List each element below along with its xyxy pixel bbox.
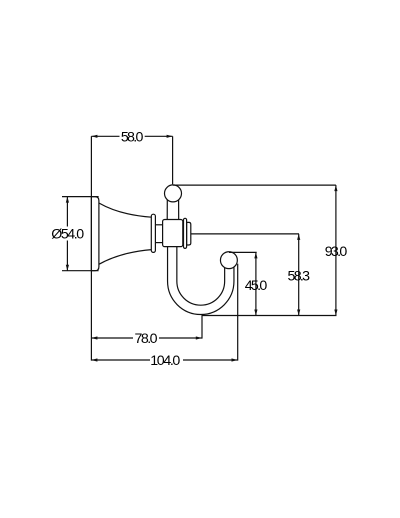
- dim 93.0 extension top: [173, 184, 336, 186]
- dim 58.3 extension: [191, 233, 299, 235]
- svg-text:58.0: 58.0: [121, 130, 144, 146]
- hook tube (shank + U-bend + right arm): [172, 239, 229, 310]
- dim Ø54.0 extension bottom: [62, 270, 99, 272]
- dim 104.0 line: [91, 358, 237, 361]
- dim 58.3 line: [297, 234, 300, 316]
- hook tip ball: [220, 252, 237, 269]
- dim 78.0 line: [91, 336, 201, 339]
- svg-text:45.0: 45.0: [245, 278, 268, 294]
- svg-text:58.3: 58.3: [288, 269, 311, 285]
- dim 58.0 extension (post axis): [172, 136, 174, 184]
- dim Ø54.0 line: [66, 197, 69, 271]
- svg-text:104.0: 104.0: [150, 353, 180, 369]
- dim 93.0 line: [334, 185, 337, 315]
- right flange ring: [184, 218, 187, 248]
- post stem: [167, 198, 179, 224]
- dim 58.0 line: [91, 135, 172, 138]
- dim 104.0 extension (hook right tangent): [237, 264, 239, 361]
- base rim: [91, 197, 99, 271]
- neck between flange and collar: [155, 225, 162, 243]
- dim Ø54.0 extension top: [62, 196, 99, 198]
- trumpet bell: [99, 203, 152, 264]
- svg-text:78.0: 78.0: [135, 331, 158, 347]
- collar block: [163, 220, 183, 247]
- dim 78.0 extension (hook bottom axis): [201, 316, 203, 339]
- right end cap: [187, 222, 191, 245]
- svg-text:Ø54.0: Ø54.0: [51, 227, 84, 243]
- dim 45.0 line: [254, 252, 257, 315]
- top ball: [165, 185, 182, 202]
- wall line: [90, 136, 92, 360]
- svg-text:93.0: 93.0: [325, 244, 348, 260]
- wall flange ring (left stadium): [151, 214, 155, 252]
- dim 93.0 extension bottom: [202, 315, 337, 317]
- dim 45.0 extension: [229, 251, 257, 253]
